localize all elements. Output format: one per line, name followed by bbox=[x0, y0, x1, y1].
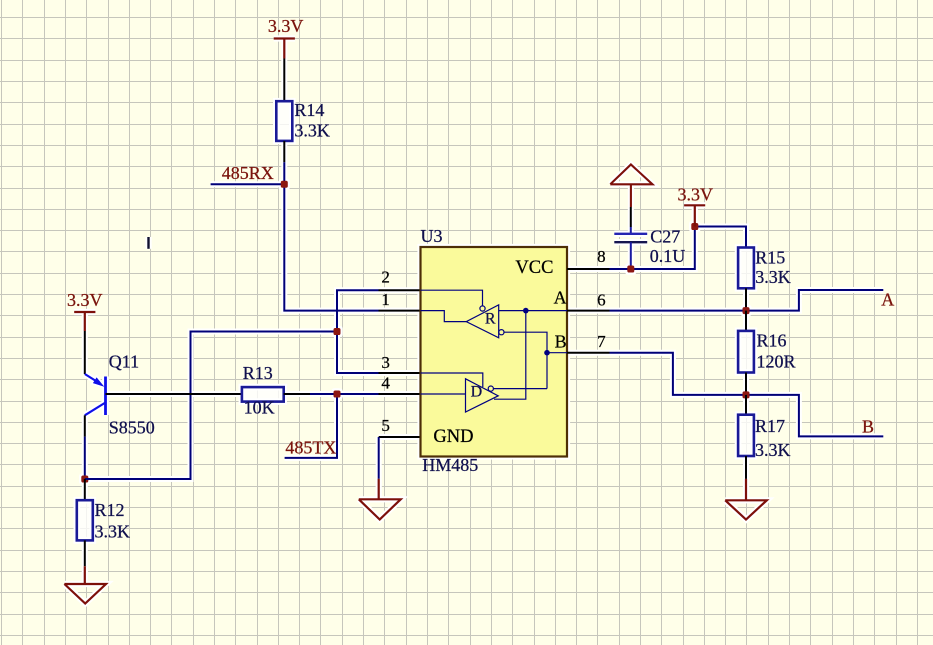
ground (R12) bbox=[64, 566, 106, 603]
wire riser to pin2 and pin3 bbox=[337, 290, 379, 373]
svg-text:R12: R12 bbox=[95, 500, 125, 520]
junction collector node bbox=[81, 476, 88, 483]
net label 485RX bbox=[222, 163, 274, 183]
resistor R13 bbox=[242, 387, 284, 402]
node A dot bbox=[523, 308, 529, 314]
letter R bbox=[485, 311, 496, 328]
label R14 bbox=[294, 100, 324, 120]
svg-text:R15: R15 bbox=[755, 247, 785, 267]
wire Q11 collector down bbox=[84, 415, 86, 479]
svg-text:B: B bbox=[555, 332, 567, 352]
power arrow (above C27) bbox=[610, 165, 652, 208]
svg-text:3: 3 bbox=[381, 353, 390, 372]
value 10K (R13) bbox=[244, 398, 275, 418]
DE enable path from pin3 bbox=[421, 373, 483, 387]
svg-text:6: 6 bbox=[597, 291, 606, 310]
ground (pin5) bbox=[359, 479, 401, 520]
pin 8 (VCC) bbox=[567, 247, 610, 269]
svg-text:120R: 120R bbox=[757, 352, 796, 372]
label R12 bbox=[95, 500, 125, 520]
power 3.3V (feeds R14) bbox=[274, 39, 295, 59]
wire junction down to pin1 bbox=[284, 184, 378, 310]
svg-text:4: 4 bbox=[381, 373, 390, 392]
value 0.1U (C27) bbox=[650, 246, 686, 266]
op-amp U3 body (HM485 transceiver) bbox=[421, 247, 568, 457]
junction 485RX node bbox=[281, 181, 288, 188]
net label 3.3V (left) bbox=[67, 290, 103, 310]
net label B bbox=[862, 417, 874, 437]
junction C27/pin8 node bbox=[627, 266, 634, 273]
RO path from pin1 bbox=[421, 311, 467, 322]
junction node A bbox=[743, 307, 750, 314]
value 3.3K (R15) bbox=[755, 267, 791, 287]
svg-text:10K: 10K bbox=[244, 398, 275, 418]
svg-text:VCC: VCC bbox=[515, 258, 553, 278]
svg-text:3.3K: 3.3K bbox=[755, 267, 791, 287]
label R13 bbox=[243, 363, 273, 383]
wire R13 to pin4 junction bbox=[284, 393, 337, 395]
pin name GND bbox=[433, 427, 473, 447]
pin 3 (DE) bbox=[379, 353, 421, 373]
resistor R15 bbox=[738, 248, 754, 289]
wire pin5 to ground bbox=[378, 437, 380, 479]
junction node B bbox=[743, 391, 750, 398]
wire node A to R16 bbox=[745, 311, 747, 331]
svg-text:5: 5 bbox=[381, 416, 390, 435]
svg-text:R17: R17 bbox=[755, 416, 785, 436]
junction DE/RE node bbox=[334, 328, 341, 335]
net label A bbox=[881, 289, 894, 309]
pin 6 (A) bbox=[567, 291, 610, 311]
capacitor C27 bbox=[614, 234, 647, 242]
svg-text:3.3K: 3.3K bbox=[755, 440, 791, 460]
svg-text:D: D bbox=[471, 384, 483, 401]
D output bubble bbox=[488, 386, 547, 391]
power 3.3V (feeds Q11) bbox=[74, 312, 95, 331]
svg-text:S8550: S8550 bbox=[109, 417, 155, 437]
resistor R16 bbox=[738, 331, 754, 373]
value 120R (R16) bbox=[757, 352, 796, 372]
svg-text:Q11: Q11 bbox=[109, 351, 139, 371]
wire 485RX stub bbox=[211, 183, 285, 185]
wire pin7 to B bbox=[610, 353, 884, 437]
value 3.3K (R17) bbox=[755, 440, 791, 460]
svg-text:3.3V: 3.3V bbox=[268, 16, 304, 36]
svg-text:3.3V: 3.3V bbox=[678, 184, 714, 204]
svg-text:U3: U3 bbox=[421, 226, 443, 246]
receiver triangle R bbox=[466, 305, 498, 338]
wire R14 to junction bbox=[283, 141, 285, 184]
ground (R17) bbox=[725, 479, 767, 520]
svg-text:A: A bbox=[881, 289, 894, 309]
net label 3.3V (right) bbox=[678, 184, 714, 204]
wire R17 to ground bbox=[745, 456, 747, 479]
wire R12 to ground bbox=[84, 540, 86, 566]
wire C27 to pin8 bbox=[630, 242, 632, 269]
svg-text:R: R bbox=[485, 311, 496, 328]
label R17 bbox=[755, 416, 785, 436]
wire node B to R17 bbox=[745, 395, 747, 415]
A input line bbox=[499, 310, 567, 312]
wire R15 to node A bbox=[745, 288, 747, 310]
RE enable path from pin2 bbox=[421, 290, 486, 311]
svg-text:485RX: 485RX bbox=[222, 163, 274, 183]
pin 4 (DI) bbox=[379, 373, 421, 394]
driver triangle D bbox=[466, 379, 499, 412]
svg-text:485TX: 485TX bbox=[285, 438, 336, 458]
svg-text:A: A bbox=[554, 288, 567, 308]
svg-text:3.3V: 3.3V bbox=[67, 290, 103, 310]
svg-text:GND: GND bbox=[433, 427, 473, 447]
letter D bbox=[471, 384, 483, 401]
label C27 bbox=[650, 226, 680, 246]
pin 2 (RE) bbox=[379, 268, 421, 291]
DI path from pin4 bbox=[421, 393, 466, 395]
value 3.3K (R14) bbox=[294, 121, 330, 141]
svg-text:2: 2 bbox=[381, 268, 390, 287]
wire collector to DE/RE riser bbox=[85, 332, 337, 480]
wire pin8 to 3.3V bbox=[610, 227, 747, 270]
wire arrow to C27 bbox=[630, 207, 632, 234]
label Q11 bbox=[109, 351, 139, 371]
net label 485TX bbox=[285, 438, 336, 458]
resistor R14 bbox=[276, 101, 292, 141]
transistor Q11 bbox=[85, 374, 106, 415]
svg-text:R14: R14 bbox=[294, 100, 324, 120]
svg-text:HM485: HM485 bbox=[422, 455, 478, 475]
wire 3.3V to R14 bbox=[283, 59, 285, 102]
wire Q11 base to R13 bbox=[106, 393, 242, 395]
pin name B bbox=[555, 332, 567, 352]
value S8550 (Q11) bbox=[109, 417, 155, 437]
pin name A bbox=[554, 288, 567, 308]
svg-text:B: B bbox=[862, 417, 874, 437]
svg-text:3.3K: 3.3K bbox=[294, 121, 330, 141]
wire 485TX stub bbox=[285, 394, 337, 458]
D output to A node bbox=[494, 311, 526, 400]
value 3.3K (R12) bbox=[95, 522, 131, 542]
pin 7 (B) bbox=[567, 332, 610, 353]
junction pin4 node bbox=[334, 391, 341, 398]
svg-text:R16: R16 bbox=[757, 331, 787, 351]
wire 3.3V to Q11 emitter bbox=[84, 331, 86, 374]
svg-text:C27: C27 bbox=[650, 226, 680, 246]
white halo underlay beneath all wires and symbols bbox=[64, 39, 883, 604]
wire junction to pin4 bbox=[337, 393, 379, 395]
node B dot bbox=[544, 350, 550, 356]
value HM485 (U3) bbox=[422, 455, 478, 475]
net label 3.3V (top) bbox=[268, 16, 304, 36]
label R15 bbox=[755, 247, 785, 267]
svg-text:7: 7 bbox=[597, 332, 606, 351]
wire R16 to node B bbox=[745, 373, 747, 395]
stray text I bbox=[147, 237, 149, 249]
svg-text:R13: R13 bbox=[243, 363, 273, 383]
svg-text:0.1U: 0.1U bbox=[650, 246, 686, 266]
label R16 bbox=[757, 331, 787, 351]
svg-text:3.3K: 3.3K bbox=[95, 522, 131, 542]
B line to pin7 bbox=[547, 352, 567, 354]
pin name VCC bbox=[515, 258, 553, 278]
pin 1 (RO) bbox=[379, 290, 421, 311]
power 3.3V (feeds R15) bbox=[684, 205, 705, 226]
resistor R12 bbox=[77, 500, 93, 540]
pin 5 (GND) bbox=[379, 416, 421, 437]
designator U3 bbox=[421, 226, 443, 246]
resistor R17 bbox=[738, 415, 754, 456]
wire pin6 to A bbox=[610, 290, 884, 311]
svg-text:8: 8 bbox=[597, 247, 606, 266]
wire collector junction to R12 bbox=[84, 479, 86, 500]
svg-text:1: 1 bbox=[381, 290, 390, 309]
B input bubble of R bbox=[499, 330, 547, 389]
junction 3.3V node bbox=[691, 223, 698, 230]
